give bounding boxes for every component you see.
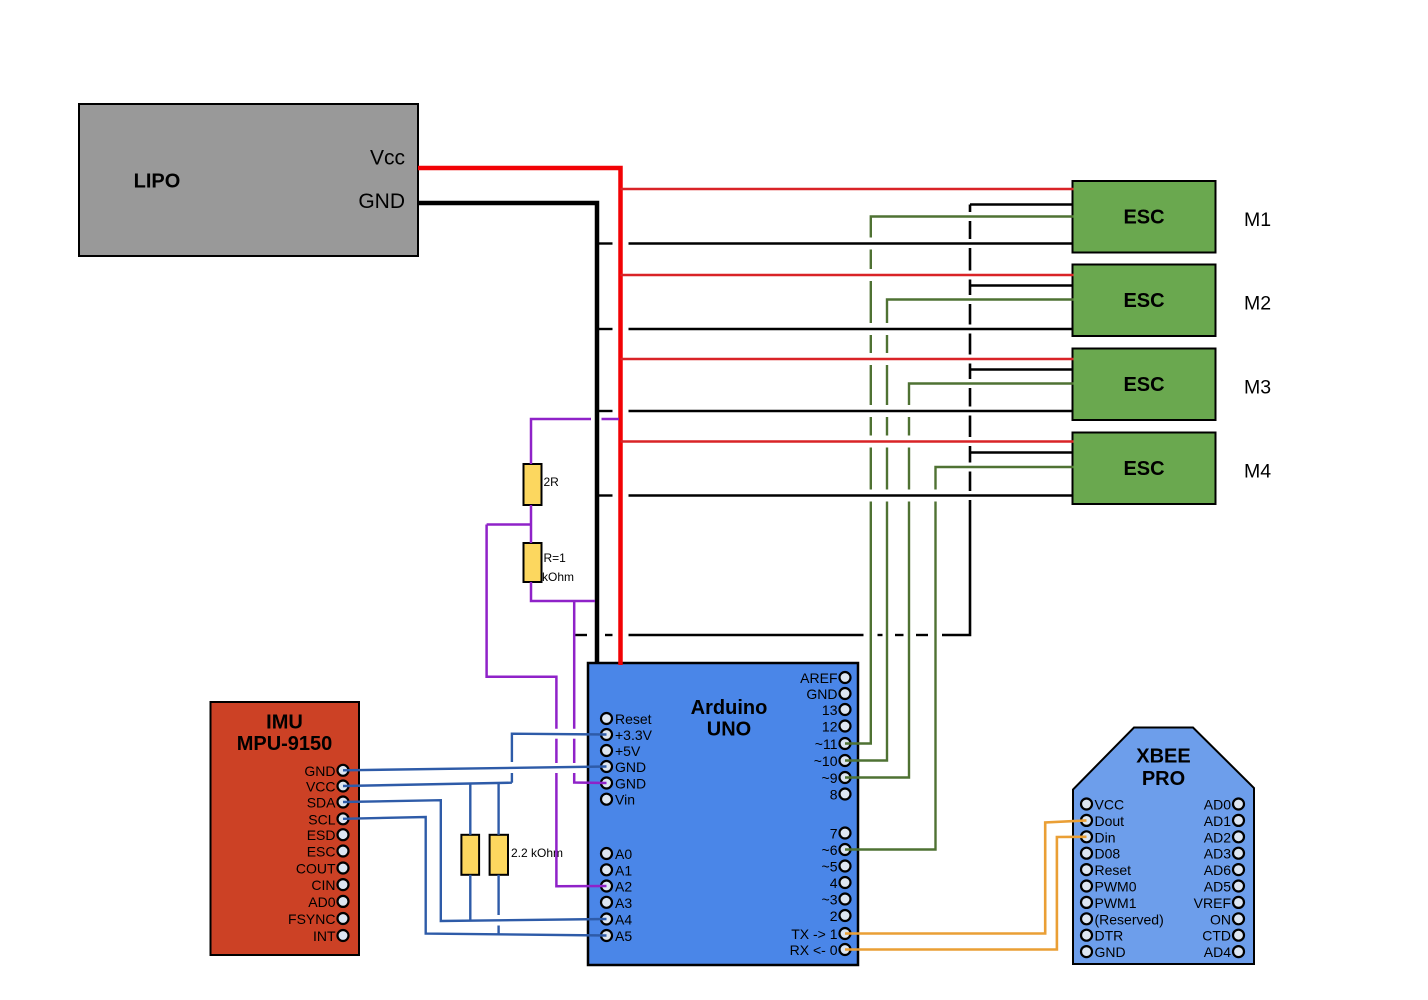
svg-text:Reset: Reset: [1095, 862, 1132, 878]
XBEE pin AD6 (right): [1204, 862, 1244, 878]
svg-text:AD4: AD4: [1204, 944, 1231, 960]
XBEE pin AD1 (right): [1204, 813, 1244, 829]
wire blue IMU GND to Arduino GND: [343, 767, 607, 771]
svg-text:VREF: VREF: [1194, 895, 1231, 911]
wire blue SCL to A5: [343, 817, 607, 936]
wire green signal D6 to ESC4: [845, 467, 1074, 850]
svg-text:SDA: SDA: [307, 795, 336, 811]
Arduino pin 12 (right): [822, 719, 851, 735]
IMU pin VCC: [306, 779, 349, 795]
svg-text:ESC: ESC: [1123, 290, 1164, 312]
svg-text:ESC: ESC: [307, 844, 336, 860]
IMU pin INT: [313, 928, 349, 944]
svg-text:M3: M3: [1244, 377, 1271, 399]
resistor 2.2kOhm SCL pullup: [490, 835, 563, 875]
svg-text:ESC: ESC: [1123, 207, 1164, 229]
svg-text:GND: GND: [358, 190, 405, 213]
wire purple divider middle: [530, 505, 533, 543]
wire black bus stub to ESC1: [970, 203, 1074, 205]
svg-text:M1: M1: [1244, 209, 1271, 231]
Arduino pin ~10 (right): [814, 753, 851, 769]
Arduino pin GND (right): [806, 686, 850, 702]
wire black ground link horizontal: [575, 634, 929, 636]
svg-text:VCC: VCC: [306, 779, 336, 795]
svg-text:A3: A3: [615, 895, 632, 911]
node divider midpoint: [487, 523, 531, 526]
wire blue pullup SCL vertical: [497, 783, 499, 934]
IMU pin ESD: [307, 827, 349, 843]
svg-text:VCC: VCC: [1095, 797, 1125, 813]
svg-text:M2: M2: [1244, 293, 1271, 315]
Arduino pin 13 (right): [822, 702, 851, 718]
svg-text:MPU-9150: MPU-9150: [237, 733, 333, 755]
svg-text:(Reserved): (Reserved): [1095, 911, 1164, 927]
Arduino pin +3.3V (left): [601, 727, 653, 743]
svg-text:XBEE: XBEE: [1136, 746, 1190, 768]
IMU pin SDA: [307, 795, 349, 811]
XBEE pin GND (left): [1081, 944, 1126, 960]
svg-text:Reset: Reset: [615, 711, 652, 727]
XBEE pin PWM0 (left): [1081, 879, 1137, 895]
wire black bus stub to ESC3: [970, 368, 1074, 370]
wire orange TX1 to XBEE Dout: [845, 820, 1087, 933]
wire red Vcc to ESC3: [621, 358, 1074, 360]
svg-text:~5: ~5: [822, 859, 838, 875]
svg-text:Vin: Vin: [615, 792, 635, 808]
wire blue SDA to A4: [343, 800, 607, 921]
wire Vcc red battery bus: [418, 168, 621, 665]
svg-text:ESC: ESC: [1123, 374, 1164, 396]
wire red Vcc to ESC4: [621, 440, 1074, 442]
wire purple to Arduino GND pin: [574, 601, 606, 783]
svg-text:Arduino: Arduino: [691, 697, 768, 719]
svg-text:R=1: R=1: [544, 551, 567, 565]
IMU pin ESC: [307, 844, 349, 860]
IMU pin SCL: [308, 811, 348, 827]
svg-text:AD6: AD6: [1204, 862, 1231, 878]
wire blue pullup SDA vertical: [469, 783, 471, 921]
XBEE pin Dout (left): [1081, 813, 1124, 829]
Arduino pin 2 (right): [830, 908, 851, 924]
svg-text:AD2: AD2: [1204, 829, 1231, 845]
XBEE pin CTD (right): [1202, 928, 1244, 944]
wire purple divider bottom to GND bus: [531, 582, 595, 601]
svg-text:GND: GND: [1095, 944, 1126, 960]
Arduino pin GND (left): [601, 776, 646, 792]
svg-text:12: 12: [822, 719, 838, 735]
svg-text:TX -> 1: TX -> 1: [791, 926, 838, 942]
svg-text:INT: INT: [313, 928, 336, 944]
svg-text:SCL: SCL: [308, 811, 335, 827]
svg-text:ESC: ESC: [1123, 458, 1164, 480]
svg-text:2R: 2R: [544, 475, 560, 489]
svg-text:LIPO: LIPO: [134, 171, 181, 193]
wire black GND to ESC1: [597, 242, 1074, 244]
svg-text:UNO: UNO: [707, 719, 751, 741]
wire green signal D10 to ESC2: [845, 300, 1074, 761]
svg-text:ESD: ESD: [307, 827, 336, 843]
XBEE pin PWM1 (left): [1081, 895, 1137, 911]
wire purple divider sense to A2: [487, 525, 607, 887]
Arduino UNO U1: [588, 663, 858, 965]
svg-text:GND: GND: [615, 776, 646, 792]
resistor 2.2kOhm SDA pullup: [461, 835, 479, 875]
svg-text:Dout: Dout: [1095, 813, 1125, 829]
ESC4: [1073, 433, 1216, 505]
XBEE pin AD4 (right): [1204, 944, 1244, 960]
XBEE pin DTR (left): [1081, 928, 1123, 944]
svg-text:AD0: AD0: [308, 894, 335, 910]
wire black GND to ESC3: [597, 410, 1074, 412]
XBEE pin VREF (right): [1194, 895, 1244, 911]
IMU pin COUT: [296, 861, 349, 877]
Arduino pin GND (left): [601, 759, 646, 775]
svg-text:GND: GND: [304, 763, 335, 779]
XBEE pin AD0 (right): [1204, 797, 1244, 813]
svg-text:~11: ~11: [815, 736, 838, 752]
svg-text:A0: A0: [615, 846, 632, 862]
ESC2: [1073, 265, 1216, 337]
Arduino pin ~3 (right): [822, 892, 851, 908]
wire green signal D9 to ESC3: [845, 384, 1074, 778]
Arduino pin AREF (right): [800, 670, 850, 686]
svg-text:RX <- 0: RX <- 0: [790, 942, 838, 958]
svg-text:A2: A2: [615, 879, 632, 895]
ESC3: [1073, 349, 1216, 421]
svg-text:Din: Din: [1095, 829, 1116, 845]
XBEE pin Din (left): [1081, 829, 1116, 845]
svg-text:A1: A1: [615, 862, 632, 878]
svg-text:FSYNC: FSYNC: [288, 911, 335, 927]
svg-text:COUT: COUT: [296, 861, 336, 877]
svg-text:D08: D08: [1095, 846, 1121, 862]
svg-text:13: 13: [822, 702, 838, 718]
svg-text:~3: ~3: [822, 892, 838, 908]
Arduino pin 7 (right): [830, 826, 851, 842]
Arduino pin 8 (right): [830, 787, 851, 803]
svg-text:AD0: AD0: [1204, 797, 1231, 813]
wire GND black battery bus: [418, 203, 597, 664]
svg-text:GND: GND: [806, 686, 837, 702]
IMU MPU-9150: [211, 702, 360, 955]
svg-text:ON: ON: [1210, 911, 1231, 927]
Arduino pin RX <- 0 (right): [790, 942, 851, 958]
wire red Vcc to ESC1: [621, 188, 1074, 190]
svg-text:CTD: CTD: [1202, 928, 1231, 944]
IMU pin GND: [304, 763, 348, 779]
Arduino pin 4 (right): [830, 875, 851, 891]
resistor 2R: [524, 464, 560, 505]
wire purple divider top to Vcc: [531, 419, 619, 464]
svg-text:A5: A5: [615, 928, 632, 944]
wire blue IMU VCC to Arduino +3.3V: [343, 734, 607, 786]
Arduino pin A1 (left): [601, 862, 632, 878]
svg-text:8: 8: [830, 787, 838, 803]
svg-text:M4: M4: [1244, 461, 1271, 483]
Arduino pin ~11 (right): [815, 736, 851, 752]
Arduino pin A5 (left): [601, 928, 632, 944]
Arduino pin A2 (left): [601, 879, 632, 895]
Arduino pin A3 (left): [601, 895, 632, 911]
resistor R1 1kOhm: [524, 543, 575, 584]
svg-text:IMU: IMU: [266, 712, 303, 734]
svg-text:GND: GND: [615, 759, 646, 775]
ESC1: [1073, 181, 1216, 253]
Arduino pin +5V (left): [601, 743, 641, 759]
Arduino pin ~6 (right): [822, 842, 851, 858]
svg-text:PWM0: PWM0: [1095, 879, 1137, 895]
wire red Vcc to ESC2: [621, 274, 1074, 276]
svg-text:PRO: PRO: [1142, 768, 1185, 790]
svg-text:AREF: AREF: [800, 670, 837, 686]
wire green signal D11 to ESC1: [845, 217, 1074, 744]
svg-text:7: 7: [830, 826, 838, 842]
svg-text:kOhm: kOhm: [542, 570, 574, 584]
svg-text:AD1: AD1: [1204, 813, 1231, 829]
wire black bus stub to ESC2: [970, 284, 1074, 286]
svg-text:AD3: AD3: [1204, 846, 1231, 862]
XBEE pin AD3 (right): [1204, 846, 1244, 862]
svg-text:+5V: +5V: [615, 743, 641, 759]
IMU pin CIN: [311, 877, 348, 893]
XBEE pin VCC (left): [1081, 797, 1124, 813]
wire orange RX0 to XBEE Din: [845, 837, 1087, 950]
svg-text:Vcc: Vcc: [370, 147, 405, 170]
XBEE pin Reset (left): [1081, 862, 1131, 878]
wire black GND to ESC2: [597, 328, 1074, 330]
XBEE pin (Reserved) (left): [1081, 911, 1164, 927]
svg-text:DTR: DTR: [1095, 928, 1124, 944]
svg-text:AD5: AD5: [1204, 879, 1231, 895]
XBEE pin AD5 (right): [1204, 879, 1244, 895]
wire black bus stub to ESC4: [970, 451, 1074, 453]
svg-text:4: 4: [830, 875, 838, 891]
Arduino pin A0 (left): [601, 846, 632, 862]
Arduino pin A4 (left): [601, 912, 632, 928]
XBEE PRO module: [1073, 728, 1254, 965]
Arduino pin TX -> 1 (right): [791, 926, 850, 942]
battery LIPO: [79, 104, 418, 256]
XBEE pin D08 (left): [1081, 846, 1120, 862]
XBEE pin AD2 (right): [1204, 829, 1244, 845]
Arduino pin ~5 (right): [822, 859, 851, 875]
svg-text:+3.3V: +3.3V: [615, 727, 653, 743]
svg-text:~9: ~9: [822, 770, 838, 786]
Arduino pin ~9 (right): [822, 770, 851, 786]
svg-text:PWM1: PWM1: [1095, 895, 1137, 911]
Arduino pin Reset (left): [601, 711, 652, 727]
wire black GND to ESC4: [597, 494, 1074, 496]
XBEE pin ON (right): [1210, 911, 1244, 927]
svg-text:2: 2: [830, 908, 838, 924]
svg-text:~6: ~6: [822, 842, 838, 858]
IMU pin AD0: [308, 894, 348, 910]
svg-text:A4: A4: [615, 912, 632, 928]
IMU pin FSYNC: [288, 911, 348, 927]
svg-text:~10: ~10: [814, 753, 838, 769]
Arduino pin Vin (left): [601, 792, 635, 808]
wire black dashed ground bus vertical: [942, 205, 970, 636]
svg-text:CIN: CIN: [311, 877, 335, 893]
